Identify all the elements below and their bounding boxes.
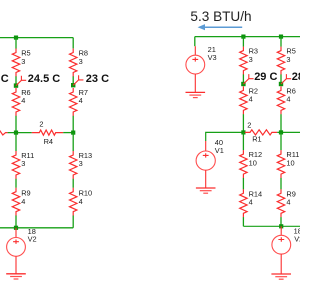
temp label 23 C	[86, 73, 109, 85]
wire left-circuit top rail	[0, 37, 73, 39]
wire V3 red stub	[194, 46, 196, 55]
svg-text:3: 3	[21, 159, 25, 168]
wire right V2 stub	[280, 226, 282, 235]
node junction left col1 top	[14, 36, 18, 40]
resistor R5 (right)	[277, 47, 296, 75]
wire left col1 R6-mid	[15, 116, 17, 133]
resistor R7	[70, 88, 89, 116]
svg-text:28.4 C: 28.4 C	[292, 71, 300, 83]
wire left col1 R5 lead	[15, 38, 17, 49]
source V2 (right)	[272, 227, 303, 255]
svg-text:3: 3	[79, 159, 83, 168]
wire V1 red stub	[205, 141, 207, 151]
wire left mid rail segment b	[63, 132, 73, 134]
resistor R8	[70, 49, 89, 77]
temp label 28 C (clipped)	[292, 71, 320, 83]
resistor R9 (right)	[277, 189, 296, 217]
svg-text:V3: V3	[208, 53, 217, 62]
wire left col1 below mid	[15, 133, 17, 151]
svg-text:4: 4	[249, 198, 253, 207]
resistor R13	[70, 151, 93, 179]
node junction left col2 mid	[71, 131, 75, 135]
svg-text:10: 10	[286, 158, 294, 167]
svg-text:5.3 BTU/h: 5.3 BTU/h	[190, 9, 251, 24]
svg-text:4: 4	[286, 198, 290, 207]
svg-text:C: C	[1, 73, 9, 85]
wire V3-ground	[194, 74, 196, 92]
resistor R11	[12, 151, 34, 179]
svg-text:3: 3	[21, 57, 25, 66]
resistor R6 (right)	[277, 86, 296, 114]
node C right colA mid-node	[241, 82, 245, 86]
node junction left col1 mid	[14, 131, 18, 135]
wire left col1 R11-R9	[15, 179, 17, 188]
node A left col1 mid-node	[14, 83, 18, 87]
wire left col1 R5-node	[15, 76, 17, 85]
node junction right colB mid	[279, 130, 283, 134]
wire left V2-ground	[15, 256, 17, 273]
node B left col2 mid-node	[71, 83, 75, 87]
wire right V2-ground	[280, 254, 282, 274]
svg-text:4: 4	[79, 96, 83, 105]
resistor R9	[12, 188, 30, 216]
svg-text:V2: V2	[28, 235, 37, 244]
svg-text:29 C: 29 C	[254, 71, 277, 83]
source V3	[186, 45, 217, 74]
node junction right colA mid	[241, 130, 245, 134]
svg-text:24.5 C: 24.5 C	[28, 73, 60, 85]
wire right colB R9-bottom	[280, 217, 282, 226]
svg-text:R4: R4	[44, 137, 53, 146]
svg-text:10: 10	[249, 158, 257, 167]
svg-text:4: 4	[286, 95, 290, 104]
wire right colB R5-node	[280, 74, 282, 84]
wire right colA R14-bottom	[242, 217, 244, 226]
temp label C (clipped)	[1, 73, 9, 85]
wire right colA R2-mid	[242, 114, 244, 132]
svg-text:3: 3	[79, 57, 83, 66]
svg-text:V2: V2	[294, 234, 300, 243]
temp probe left col2	[73, 75, 83, 85]
wire left col2 R8-node	[72, 76, 74, 85]
resistor R3 (right)	[240, 47, 258, 75]
svg-text:4: 4	[249, 95, 253, 104]
resistor R11 (right)	[277, 150, 299, 178]
wire left col2 R13-R10	[72, 179, 74, 188]
resistor R1 (right)	[245, 121, 277, 144]
resistor R4	[32, 120, 63, 146]
ground right V2	[271, 274, 291, 279]
wire left V2 stub	[15, 228, 17, 238]
resistor R12	[240, 150, 262, 178]
resistor R3 (clipped at left edge)	[0, 130, 8, 135]
svg-text:R1: R1	[252, 135, 261, 144]
wire right colB top lead	[280, 37, 282, 47]
node junction right V2 tap	[279, 224, 283, 228]
svg-text:2: 2	[39, 120, 43, 129]
svg-text:V1: V1	[215, 146, 224, 155]
wire left bottom rail	[0, 227, 73, 229]
wire left col2 below mid	[72, 133, 74, 151]
temp label 29 C	[254, 71, 277, 83]
svg-text:2: 2	[247, 121, 251, 130]
wire V3 drop	[194, 37, 196, 47]
node junction right colB top	[279, 35, 283, 39]
wire right colA top lead	[242, 37, 244, 47]
node junction right colA top	[241, 35, 245, 39]
svg-text:23 C: 23 C	[86, 73, 109, 85]
source V1	[196, 138, 224, 170]
svg-text:4: 4	[79, 197, 83, 206]
node D right colB mid-node	[279, 82, 283, 86]
svg-text:3: 3	[249, 55, 253, 64]
heat flow label 5.3 BTU/h	[190, 9, 251, 24]
resistor R5	[12, 49, 30, 77]
temp probe left col1	[16, 76, 26, 86]
wire left col2 R10-bottom	[72, 216, 74, 228]
wire right colB R6-mid	[280, 114, 282, 132]
temp probe right colA	[243, 74, 253, 84]
wire left mid rail segment a	[8, 132, 32, 134]
wire left col2 top drop	[72, 38, 74, 49]
wire right colA below mid	[242, 132, 244, 150]
node junction left V2 tap	[14, 226, 18, 230]
temp label 24.5 C	[28, 73, 60, 85]
heat flow arrow	[198, 24, 243, 30]
ground V1	[196, 188, 216, 193]
resistor R14	[240, 189, 262, 217]
wire right bottom rail	[243, 225, 302, 227]
wire right colB below mid	[280, 132, 282, 150]
wire right colB R11-R9	[280, 178, 282, 190]
wire right colA R3-node	[242, 74, 244, 84]
ground V3	[186, 92, 206, 97]
wire right mid rail segment	[277, 131, 302, 133]
wire right colA R12-R14	[242, 178, 244, 190]
wire left col2 R7-mid	[72, 116, 74, 133]
resistor R2 (right)	[240, 86, 258, 114]
svg-text:4: 4	[21, 197, 25, 206]
svg-text:3: 3	[286, 55, 290, 64]
wire right top rail	[195, 36, 302, 38]
resistor R6	[12, 88, 30, 116]
wire V1-ground	[205, 170, 207, 188]
wire left col1 R9-bottom	[15, 216, 17, 228]
resistor R10	[70, 188, 93, 216]
wire V1 top corner	[206, 132, 244, 141]
temp probe right colB	[281, 74, 291, 84]
svg-text:4: 4	[21, 96, 25, 105]
ground left V2	[6, 274, 26, 279]
source V2 (left)	[7, 227, 37, 256]
